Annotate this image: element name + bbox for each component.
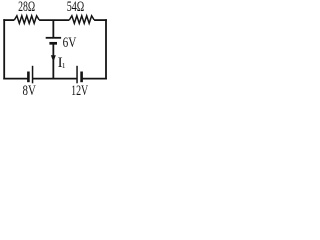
wire: top-left segment	[3, 19, 14, 21]
battery B3 12V long plate	[76, 66, 78, 84]
battery B3 12V short plate	[80, 72, 83, 83]
wire: right vertical side	[105, 19, 107, 79]
wire: middle branch lower	[52, 43, 54, 79]
svg-text:8V: 8V	[23, 83, 36, 95]
svg-text:54Ω: 54Ω	[67, 0, 85, 15]
wire: bottom-left segment	[3, 78, 27, 80]
wire: top-right segment	[94, 19, 107, 21]
resistor R2 54ohm zigzag	[69, 16, 94, 23]
current arrow I1 head	[51, 55, 56, 62]
svg-text:6V: 6V	[63, 33, 77, 50]
battery B2 6V long plate	[46, 37, 61, 39]
battery B1 8V long plate	[32, 66, 34, 84]
wire: bottom-middle segment	[33, 78, 77, 80]
wire: left vertical side	[3, 19, 5, 79]
svg-text:1: 1	[62, 61, 66, 70]
svg-text:28Ω: 28Ω	[18, 0, 35, 15]
battery B2 6V short plate	[49, 42, 57, 45]
svg-text:12V: 12V	[71, 82, 88, 95]
battery B1 8V short plate	[27, 72, 30, 83]
wire: top-middle segment	[39, 19, 69, 21]
background	[0, 0, 111, 95]
wire: bottom-right segment	[83, 78, 107, 80]
wire: middle branch upper	[52, 20, 54, 38]
resistor R1 28ohm zigzag	[14, 16, 39, 23]
